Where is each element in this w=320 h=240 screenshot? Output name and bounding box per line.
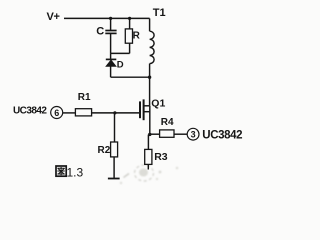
wire drain line (149, 64, 151, 106)
svg-text:UC3842: UC3842 (13, 105, 47, 116)
svg-text:C: C (96, 25, 104, 37)
svg-text:3: 3 (191, 130, 196, 140)
junction top rail / R branch (128, 17, 131, 20)
wire diode upper lead (110, 53, 112, 58)
svg-text:D: D (117, 60, 124, 71)
svg-text:R4: R4 (161, 117, 174, 128)
wire snubber connector (111, 52, 130, 54)
wire R2 upper lead (114, 113, 116, 142)
svg-text:V+: V+ (47, 11, 60, 23)
wire top rail (64, 17, 150, 19)
wire pin6 to R1 (63, 112, 76, 114)
junction top rail / C branch (109, 17, 112, 20)
wire snubber bottom (111, 76, 150, 78)
wire R2 lower lead (113, 157, 115, 179)
svg-text:T1: T1 (153, 7, 166, 19)
wire R4 to pin3 (174, 133, 187, 135)
wire C branch lower (110, 34, 112, 54)
wire R3 upper lead (147, 135, 149, 150)
svg-text:UC3842: UC3842 (202, 129, 242, 141)
wire C branch upper (110, 18, 112, 30)
capacitor C (105, 31, 116, 34)
wire R1 to gate (92, 112, 140, 114)
junction source / R3 / R4 (148, 133, 151, 136)
wire source lead (149, 106, 151, 135)
figure caption 图1.3 (56, 165, 84, 179)
wire R branch upper (129, 18, 131, 29)
ground bar (108, 178, 120, 180)
transformer T1 primary winding (150, 31, 155, 63)
resistor R1 (75, 109, 91, 116)
diode D (106, 59, 117, 66)
pin 3 terminal circle (187, 128, 199, 140)
svg-text:R1: R1 (78, 92, 91, 103)
junction gate wire / R2 (113, 111, 116, 114)
resistor R4 (160, 130, 174, 137)
svg-text:R2: R2 (98, 145, 111, 156)
wire diode lower lead (110, 66, 112, 77)
wire R3 lower stub (147, 164, 149, 169)
svg-text:R: R (133, 31, 141, 42)
wire transformer top lead (149, 18, 151, 31)
resistor R2 (111, 142, 118, 157)
watermark (120, 165, 179, 184)
wire source junction to R4 (150, 133, 160, 135)
svg-text:Q1: Q1 (151, 98, 165, 110)
resistor R3 (145, 149, 152, 164)
svg-text:1.3: 1.3 (67, 165, 84, 179)
resistor R (snubber) (125, 29, 132, 43)
junction snubber / drain line (148, 76, 151, 79)
transistor Q1 MOSFET (140, 99, 150, 120)
pin 6 terminal circle (51, 107, 63, 119)
wire R branch lower (129, 43, 131, 53)
svg-text:R3: R3 (154, 151, 168, 163)
svg-text:6: 6 (54, 108, 59, 118)
